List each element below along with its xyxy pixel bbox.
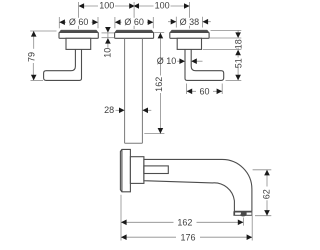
left handle body block bbox=[66, 38, 91, 49]
svg-text:162: 162 bbox=[154, 77, 164, 92]
dim D38 right handle bbox=[168, 17, 211, 28]
dim 62 bbox=[253, 170, 272, 216]
dim 100 left: dimension line bbox=[79, 0, 135, 10]
svg-text:Ø 10: Ø 10 bbox=[157, 56, 177, 66]
spout neck bbox=[130, 157, 144, 184]
spout tube body bbox=[144, 159, 252, 211]
svg-text:51: 51 bbox=[234, 58, 244, 68]
dim 10 spout plate thickness bbox=[102, 27, 115, 58]
svg-text:28: 28 bbox=[104, 105, 114, 115]
dim D60 spout escutcheon bbox=[115, 17, 153, 28]
centerline tick right handle bbox=[189, 2, 191, 18]
svg-text:Ø 60: Ø 60 bbox=[69, 17, 89, 27]
right handle escutcheon band bbox=[170, 30, 209, 32]
svg-text:Ø 38: Ø 38 bbox=[180, 17, 200, 27]
dim D10 right stem bbox=[157, 56, 203, 66]
svg-text:62: 62 bbox=[262, 189, 272, 199]
ext line wall face bottom bbox=[120, 195, 122, 241]
dim 18 right bbox=[203, 30, 244, 55]
svg-text:100: 100 bbox=[99, 0, 114, 10]
dim 79 left bbox=[27, 31, 57, 80]
spout detail rectangle bbox=[144, 166, 168, 174]
dim 162 bottom bbox=[121, 218, 243, 228]
right handle body block bbox=[177, 38, 201, 49]
spout escutcheon band (top view) bbox=[115, 30, 154, 32]
spout aerator bump bbox=[240, 214, 246, 216]
right handle lever and stem bbox=[185, 49, 224, 80]
dim 176 bottom bbox=[121, 232, 252, 242]
svg-text:10: 10 bbox=[103, 48, 113, 58]
spout aerator cap bbox=[233, 211, 252, 216]
centerline tick spout bbox=[133, 2, 135, 18]
dim 51 right bbox=[226, 55, 244, 80]
centerline tick left handle bbox=[78, 2, 80, 18]
spout side view: wall escutcheon bbox=[120, 149, 130, 191]
left handle escutcheon rim bbox=[59, 32, 98, 38]
svg-text:Ø 60: Ø 60 bbox=[124, 17, 144, 27]
right handle escutcheon rim bbox=[170, 32, 209, 38]
dim D60 left handle bbox=[59, 17, 98, 28]
spout supply pipe bbox=[124, 38, 126, 143]
left handle lever and stem bbox=[44, 49, 82, 80]
left handle escutcheon band bbox=[59, 30, 98, 32]
svg-text:100: 100 bbox=[155, 0, 170, 10]
dim 100 right: dimension line bbox=[133, 0, 189, 10]
ext line spout outer edge bbox=[251, 211, 253, 241]
dim 28 pipe width bbox=[104, 105, 151, 115]
spout aerator right inset bbox=[247, 213, 252, 215]
spout aerator left inset bbox=[235, 213, 241, 215]
svg-text:176: 176 bbox=[180, 232, 195, 242]
spout escutcheon rim (top view) bbox=[115, 32, 154, 38]
svg-text:18: 18 bbox=[234, 39, 244, 49]
svg-text:60: 60 bbox=[199, 87, 209, 97]
svg-text:79: 79 bbox=[27, 52, 37, 62]
dim 162 vertical (spout height) bbox=[144, 33, 164, 134]
svg-text:162: 162 bbox=[177, 218, 192, 228]
dim 60 right lever bbox=[187, 84, 223, 97]
ext line spout outlet axis bbox=[242, 218, 244, 226]
